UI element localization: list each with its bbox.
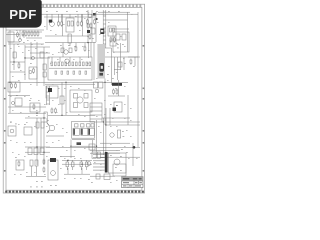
svg-text:PDF: PDF	[9, 7, 37, 22]
